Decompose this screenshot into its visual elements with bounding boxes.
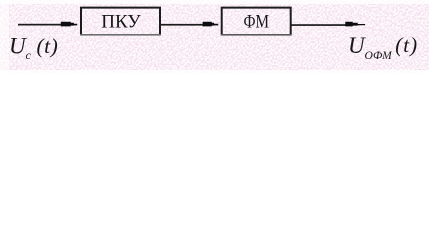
node label Uc(t)	[9, 34, 58, 62]
arrowhead input	[61, 22, 77, 27]
svg-text:(t): (t)	[37, 34, 59, 58]
arrowhead output	[345, 22, 365, 27]
block PKU box U1	[80, 8, 161, 36]
svg-text:с: с	[26, 48, 32, 62]
svg-text:U: U	[348, 33, 366, 58]
svg-text:ОФМ: ОФМ	[365, 50, 394, 62]
block FM box U2	[221, 8, 292, 36]
svg-text:U: U	[9, 34, 27, 59]
arrowhead to FM	[203, 22, 219, 27]
svg-text:(t): (t)	[395, 33, 418, 57]
node label Uofm(t)	[348, 33, 418, 62]
wire between boxes	[161, 24, 204, 26]
wire output	[291, 24, 347, 26]
wire input	[18, 24, 62, 26]
svg-text:ФМ: ФМ	[244, 12, 270, 33]
svg-text:ПКУ: ПКУ	[101, 12, 141, 33]
